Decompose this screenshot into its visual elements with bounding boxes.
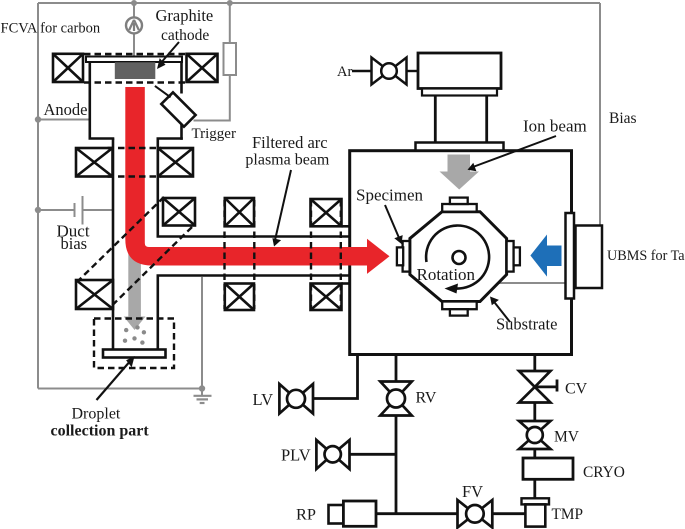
- ion gun neck flange: [422, 89, 497, 96]
- valve RV: [380, 382, 412, 416]
- specimen tab top: [442, 204, 477, 212]
- svg-text:CRYO: CRYO: [583, 464, 625, 481]
- svg-text:LV: LV: [253, 390, 274, 409]
- resistor (trigger): [224, 43, 237, 75]
- wire: arc source drop: [133, 3, 135, 18]
- specimen label arrow: [385, 205, 400, 239]
- svg-text:Rotation: Rotation: [417, 265, 476, 284]
- ion beam gray arrow: [440, 155, 480, 190]
- svg-text:PLV: PLV: [281, 446, 311, 465]
- TMP body: [525, 504, 545, 526]
- UBMS target plate: [566, 213, 575, 299]
- wire: resistor to trigger: [194, 75, 230, 121]
- svg-text:bias: bias: [61, 234, 88, 253]
- wire: trigger resistor drop: [229, 3, 231, 43]
- TMP flange: [522, 498, 550, 504]
- coil V1 right: [187, 54, 218, 82]
- pipe: CRYO to TMP: [533, 479, 536, 498]
- pipe: PLV to RV line: [350, 453, 397, 456]
- svg-text:RV: RV: [416, 390, 437, 407]
- graphite cathode block: [115, 62, 156, 79]
- specimen tab right: [507, 241, 514, 272]
- trigger contact wire: [155, 86, 171, 97]
- substrate holder octagon: [410, 212, 507, 302]
- battery duct bias: long plate: [82, 196, 84, 225]
- coil H2 bottom mount bracket: [342, 282, 351, 285]
- coil bend lower-left: [76, 280, 113, 309]
- coil H2 top: [311, 199, 342, 226]
- junction dot resistor branch: [227, 0, 233, 6]
- svg-text:Filtered arc: Filtered arc: [252, 133, 328, 152]
- wire: duct ground riser: [201, 277, 203, 396]
- cathode top plate: [86, 57, 182, 63]
- UBMS body box: [576, 226, 603, 289]
- battery duct bias: short plate: [74, 203, 76, 217]
- CRYO pump box: [523, 458, 573, 479]
- valve LV: [279, 384, 313, 414]
- valve CV (gate): [519, 371, 551, 403]
- chamber (UBMS/deposition chamber): [350, 151, 572, 355]
- wire: duct bias tap left: [38, 209, 75, 211]
- dashed cathode bottom: [84, 81, 185, 83]
- droplet path gray arrow: [124, 252, 146, 330]
- coil V2 right: [158, 148, 193, 177]
- valve PLV: [316, 440, 349, 469]
- rotary pump RP: [329, 505, 344, 524]
- dashed H2 right: [340, 200, 342, 309]
- dashed V2 top: [108, 147, 162, 149]
- coil H1 bottom: [225, 284, 254, 311]
- CV stem: [535, 385, 557, 388]
- pipe: chamber to LV: [314, 356, 358, 399]
- wall: top box right upper: [180, 61, 183, 94]
- Ar valve: [372, 58, 407, 85]
- wire: duct bias tap right: [83, 209, 114, 211]
- rotation arrowhead: [445, 284, 459, 294]
- coil H2 bottom: [311, 284, 342, 311]
- pipe: MV to CRYO: [533, 449, 536, 458]
- wire: arc source to cathode: [133, 34, 135, 58]
- wall: right step: [157, 137, 183, 140]
- pipe: RV down: [395, 416, 398, 514]
- svg-text:UBMS for Ta: UBMS for Ta: [607, 248, 685, 264]
- specimen tab bottom: [442, 302, 477, 310]
- wire: left bus: [37, 3, 39, 389]
- dashed bend diagonal lower: [111, 227, 192, 307]
- svg-text:FCVA for carbon: FCVA for carbon: [1, 20, 101, 36]
- svg-text:Specimen: Specimen: [356, 186, 424, 205]
- coil bend upper-right: [163, 198, 195, 226]
- junction dot duct bias: [35, 207, 41, 213]
- dashed cathode top: [84, 53, 185, 55]
- sputter flux blue arrow: [530, 235, 561, 277]
- substrate label arrow: [493, 301, 510, 323]
- svg-text:cathode: cathode: [161, 27, 209, 44]
- ion gun body: [418, 53, 501, 89]
- Ar feed line: [352, 70, 372, 72]
- dashed V2 bottom: [108, 175, 162, 177]
- svg-text:Substrate: Substrate: [496, 315, 557, 334]
- svg-text:Graphite: Graphite: [156, 6, 214, 25]
- pipe: RP to FV to TMP: [376, 512, 458, 515]
- svg-text:Droplet: Droplet: [72, 406, 121, 423]
- ion beam label arrow: [472, 136, 557, 168]
- wire: anode tap: [38, 119, 90, 121]
- wire: bias right bus: [599, 3, 601, 225]
- dashed bend diagonal upper: [78, 197, 164, 281]
- svg-text:TMP: TMP: [552, 506, 583, 523]
- svg-text:CV: CV: [565, 381, 588, 398]
- svg-text:RP: RP: [296, 505, 316, 524]
- svg-text:plasma beam: plasma beam: [245, 151, 330, 168]
- junction dot ground: [199, 385, 205, 391]
- wall: top box right lower: [180, 123, 183, 140]
- coil H1 top: [225, 198, 254, 226]
- wall: duct left (down to droplet plate): [112, 139, 115, 350]
- dashed H2 left: [310, 200, 312, 309]
- ion gun bottom flange: [416, 143, 504, 151]
- trigger electrode: [161, 92, 195, 126]
- specimen tab left: [403, 241, 410, 272]
- svg-text:Ion beam: Ion beam: [523, 117, 587, 136]
- filtered arc plasma beam (red): [125, 87, 389, 274]
- droplet collector plate: [103, 350, 166, 358]
- junction dot top-left branch: [131, 0, 137, 6]
- wall: duct right upper + horizontal duct top wall: [158, 139, 349, 237]
- ion gun column walls: [434, 96, 437, 143]
- svg-text:Ar: Ar: [337, 64, 352, 80]
- valve MV: [519, 421, 551, 449]
- svg-text:Bias: Bias: [609, 110, 637, 127]
- droplet particles: [123, 325, 146, 345]
- wire: substrate bias (inside chamber): [474, 282, 565, 284]
- svg-text:Trigger: Trigger: [192, 126, 236, 142]
- pipe: chamber to CV: [533, 356, 536, 372]
- wall: top box left: [89, 61, 92, 140]
- ground symbol: [194, 396, 212, 403]
- svg-text:MV: MV: [554, 429, 580, 446]
- svg-text:FV: FV: [462, 482, 483, 501]
- rotation arc: [426, 226, 489, 289]
- junction dot anode: [35, 116, 41, 122]
- wire: bottom ground bus: [38, 388, 202, 390]
- wall: left step: [89, 137, 115, 140]
- dashed H1 right: [253, 200, 255, 309]
- pipe: CV to MV: [533, 403, 536, 422]
- pipe: chamber to RV: [395, 356, 398, 382]
- arc power source symbol: [126, 17, 142, 33]
- wall: horizontal duct bottom + duct right lower: [158, 276, 349, 350]
- droplet collection dashed box: [94, 319, 174, 369]
- droplet label arrow: [97, 360, 132, 401]
- rotation axis: [453, 251, 466, 264]
- coil V1 left: [53, 54, 83, 82]
- wire: top bus: [38, 2, 600, 4]
- graphite cathode label arrow: [160, 42, 180, 65]
- dashed H1 left: [223, 200, 225, 309]
- svg-text:Anode: Anode: [44, 100, 88, 119]
- coil H2 top mount bracket: [342, 225, 351, 228]
- svg-text:collection part: collection part: [51, 423, 150, 440]
- valve FV: [458, 500, 493, 528]
- filtered arc label arrow: [275, 170, 291, 241]
- coil V2 left: [76, 148, 113, 177]
